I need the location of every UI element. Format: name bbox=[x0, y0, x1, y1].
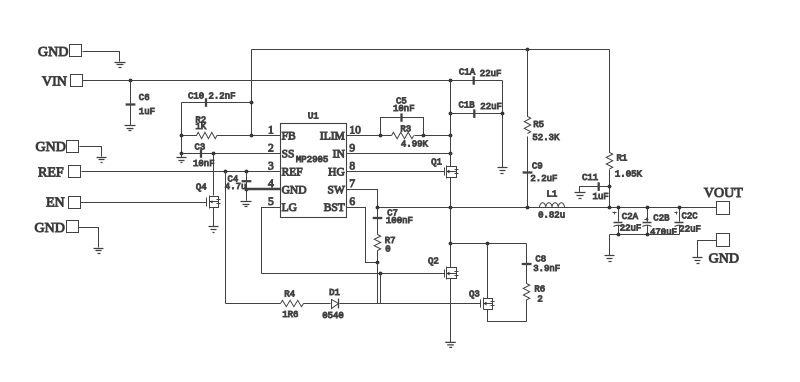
svg-text:100nF: 100nF bbox=[386, 216, 413, 226]
svg-text:R5: R5 bbox=[533, 120, 544, 130]
ground (Q4) bbox=[209, 227, 219, 233]
svg-text:VIN: VIN bbox=[42, 75, 67, 90]
svg-text:C11: C11 bbox=[582, 173, 598, 183]
node VOUT/C2C junction bbox=[678, 206, 682, 210]
node SW/C7 junction bbox=[376, 206, 380, 210]
transistor Q3 bbox=[469, 289, 495, 309]
capacitor C11 bbox=[580, 173, 610, 202]
resistor R5 bbox=[524, 50, 560, 171]
svg-text:REF: REF bbox=[38, 166, 64, 181]
svg-text:L1: L1 bbox=[547, 189, 558, 199]
svg-text:C2B: C2B bbox=[653, 214, 670, 224]
node SW row crossing handled above; node Q2 drain row junction bbox=[449, 242, 453, 246]
pin 4 GND bbox=[268, 178, 307, 196]
capacitor C4 bbox=[225, 172, 252, 201]
ground (SS node) bbox=[177, 154, 187, 163]
svg-text:1.05K: 1.05K bbox=[615, 169, 643, 179]
node VOUT/C2A junction bbox=[617, 206, 621, 210]
svg-text:9: 9 bbox=[349, 142, 355, 154]
node SW/R1-bottom junction bbox=[608, 206, 612, 210]
svg-text:SW: SW bbox=[328, 184, 345, 196]
svg-text:GND: GND bbox=[38, 45, 68, 60]
wire pin6 BST stub bbox=[347, 208, 378, 263]
wire LG row to Q2 gate bbox=[262, 273, 445, 275]
port GND1 bbox=[38, 45, 82, 61]
wire FB vertical bbox=[251, 50, 253, 136]
svg-text:2: 2 bbox=[537, 295, 542, 305]
svg-text:R3: R3 bbox=[400, 124, 411, 134]
node VOUT/C2B junction bbox=[646, 206, 650, 210]
ground (Q2) bbox=[445, 342, 456, 347]
svg-text:0: 0 bbox=[385, 245, 390, 255]
svg-text:GND: GND bbox=[282, 184, 307, 196]
svg-text:FB: FB bbox=[282, 131, 296, 143]
svg-text:C8: C8 bbox=[535, 254, 546, 264]
node SS/Q4 junction bbox=[212, 152, 216, 156]
wire C1A/C1B right vertical bbox=[502, 81, 504, 168]
svg-text:HG: HG bbox=[328, 167, 345, 179]
wire pin5 LG stub bbox=[262, 208, 281, 274]
wire Q3 drain up bbox=[487, 244, 489, 299]
svg-text:C1B: C1B bbox=[459, 101, 476, 111]
node ILIM/C5-right junction bbox=[422, 134, 426, 138]
svg-text:C2A: C2A bbox=[622, 212, 639, 222]
wire SS row / capacitor C3 bbox=[182, 142, 281, 169]
node R2-right/pin1 junction bbox=[250, 134, 254, 138]
capacitor C8 bbox=[522, 244, 561, 284]
pin 2 SS bbox=[268, 142, 294, 160]
node REF/bias junction bbox=[224, 170, 228, 174]
svg-text:3.9nF: 3.9nF bbox=[533, 264, 560, 274]
node SW/Q1-source junction bbox=[449, 206, 453, 210]
wire pin8 HG to Q1 gate bbox=[347, 171, 445, 173]
svg-text:C3: C3 bbox=[195, 142, 206, 152]
node VIN/C1A-left junction bbox=[449, 79, 453, 83]
wire GND2 to ground bbox=[80, 147, 102, 157]
svg-text:5: 5 bbox=[268, 196, 274, 208]
pin 9 IN bbox=[333, 142, 356, 160]
port EN bbox=[46, 196, 81, 211]
svg-text:Q4: Q4 bbox=[196, 183, 207, 193]
node Q3 drain junction bbox=[486, 242, 490, 246]
ground (C4) bbox=[241, 202, 252, 207]
capacitor C2A bbox=[613, 208, 642, 235]
svg-text:EN: EN bbox=[46, 196, 65, 211]
node ILIM/IN-vertical junction bbox=[449, 134, 453, 138]
svg-text:LG: LG bbox=[282, 202, 297, 214]
svg-text:4: 4 bbox=[268, 178, 274, 190]
node LG/bias junction bbox=[379, 272, 383, 276]
wire EN to Q4 gate bbox=[81, 202, 207, 204]
svg-text:R4: R4 bbox=[284, 289, 295, 299]
wire pin4 GND stub (thick) bbox=[246, 188, 280, 190]
ground (GND3) bbox=[94, 249, 104, 254]
wire pin1 FB stub bbox=[252, 135, 281, 137]
node C10-right junction bbox=[250, 101, 254, 105]
inductor L1 bbox=[538, 189, 565, 220]
svg-text:C1A: C1A bbox=[459, 68, 476, 78]
svg-text:GND: GND bbox=[36, 140, 66, 155]
ground (C1 caps) bbox=[498, 168, 508, 174]
svg-text:1uF: 1uF bbox=[139, 107, 155, 117]
wire pin9 IN row bbox=[347, 153, 451, 155]
port GND2 bbox=[36, 140, 79, 155]
wire SW net row bbox=[378, 207, 717, 209]
pin 5 LG bbox=[268, 196, 297, 214]
transistor Q2 bbox=[428, 256, 459, 279]
svg-text:8: 8 bbox=[349, 160, 355, 172]
svg-text:ILIM: ILIM bbox=[320, 131, 345, 143]
svg-text:22uF: 22uF bbox=[480, 102, 502, 112]
node IN/Q1-drain junction bbox=[449, 152, 453, 156]
wire REF to bias row vertical bbox=[225, 172, 227, 304]
svg-text:C2C: C2C bbox=[682, 212, 699, 222]
ground (C6) bbox=[125, 126, 136, 131]
wire FB/SS left vertical bbox=[181, 103, 183, 154]
svg-text:52.3K: 52.3K bbox=[532, 133, 560, 143]
capacitor C5 bbox=[381, 96, 424, 135]
wire GND4 to ground bbox=[698, 241, 717, 258]
wire VIN net bbox=[83, 80, 503, 82]
svg-text:BST: BST bbox=[324, 202, 345, 214]
transistor Q1 bbox=[431, 157, 458, 178]
capacitor C7 bbox=[373, 208, 413, 235]
node C1B-right junction bbox=[501, 112, 505, 116]
svg-text:6: 6 bbox=[349, 196, 355, 208]
ground (GND1) bbox=[115, 63, 126, 68]
resistor R2 bbox=[182, 116, 252, 139]
wire Q1 drain up to IN/VIN vertical bbox=[450, 81, 452, 167]
resistor R7 bbox=[374, 235, 395, 263]
svg-text:22uF: 22uF bbox=[480, 69, 502, 79]
node REF/C4 junction bbox=[245, 170, 249, 174]
wire GND1 to ground bbox=[83, 52, 120, 62]
wire pin7 SW jog bbox=[347, 190, 378, 208]
ground (C2 rail) bbox=[605, 256, 615, 262]
ground (GND2) bbox=[97, 158, 107, 163]
wire C2 bottom rail bbox=[610, 235, 680, 256]
capacitor C6 bbox=[126, 81, 155, 125]
wire SS to Q4 drain bbox=[213, 154, 215, 196]
pin 8 HG bbox=[328, 160, 355, 178]
svg-text:VOUT: VOUT bbox=[704, 186, 743, 201]
wire Q2 source to ground bbox=[450, 279, 452, 343]
svg-text:1R6: 1R6 bbox=[282, 310, 298, 320]
wire FB top rail bbox=[252, 49, 610, 51]
wire pin10 ILIM row bbox=[347, 135, 451, 137]
wire snubber row bbox=[451, 243, 527, 245]
pin 3 REF bbox=[268, 160, 303, 178]
wire REF net to pin 3 bbox=[82, 171, 281, 173]
wire R7 bottom to bias row bbox=[377, 263, 379, 304]
wire Q1 source down to Q2 drain bbox=[450, 178, 452, 268]
port VOUT bbox=[704, 186, 743, 215]
capacitor C2C bbox=[675, 208, 701, 235]
svg-text:3: 3 bbox=[268, 160, 274, 172]
bias row wire (R4/D1 row) bbox=[226, 303, 481, 305]
node C2A bottom junction bbox=[617, 233, 621, 237]
node C2B bottom junction bbox=[646, 233, 650, 237]
svg-text:C9: C9 bbox=[532, 161, 543, 171]
wire Q4 source to ground bbox=[213, 208, 215, 227]
svg-text:1: 1 bbox=[268, 124, 274, 136]
node R7/BST junction bbox=[376, 261, 380, 265]
capacitor C1A bbox=[459, 68, 502, 85]
svg-text:1uF: 1uF bbox=[593, 192, 609, 202]
port GND4 (bottom right) bbox=[709, 234, 739, 267]
wire LG junction down to bias row bbox=[380, 274, 382, 304]
svg-text:C6: C6 bbox=[139, 93, 150, 103]
svg-text:SS: SS bbox=[282, 149, 295, 161]
pin 1 FB bbox=[268, 124, 296, 142]
svg-text:MP2905: MP2905 bbox=[296, 155, 328, 165]
svg-text:U1: U1 bbox=[308, 112, 319, 122]
node ILIM/C5-left junction bbox=[379, 134, 383, 138]
capacitor C10 bbox=[182, 92, 252, 107]
svg-text:IN: IN bbox=[333, 149, 346, 161]
diode D1 bbox=[322, 288, 344, 321]
svg-text:0540: 0540 bbox=[322, 311, 344, 321]
capacitor C1B bbox=[451, 101, 503, 118]
svg-text:10nF: 10nF bbox=[393, 104, 415, 114]
IC U1 MP2905 box bbox=[281, 112, 347, 218]
svg-text:10nF: 10nF bbox=[193, 159, 215, 169]
wire Q3 source to bottom row bbox=[488, 310, 527, 322]
svg-text:R6: R6 bbox=[534, 284, 545, 294]
resistor R4 bbox=[281, 289, 304, 320]
ground (C11) bbox=[575, 193, 586, 199]
wire GND3 to ground bbox=[79, 228, 99, 248]
port GND3 bbox=[35, 221, 79, 236]
ground (GND4) bbox=[693, 258, 703, 264]
svg-text:Q3: Q3 bbox=[469, 289, 480, 299]
capacitor C9 bbox=[523, 138, 558, 208]
node VIN/C6 junction bbox=[129, 79, 133, 83]
node SW/C9 junction bbox=[526, 206, 530, 210]
svg-text:7: 7 bbox=[349, 178, 355, 190]
svg-text:0.82u: 0.82u bbox=[538, 210, 565, 220]
svg-text:4.7u: 4.7u bbox=[225, 182, 247, 192]
resistor R6 bbox=[523, 284, 545, 322]
resistor R3 bbox=[392, 124, 429, 149]
svg-text:2: 2 bbox=[268, 142, 274, 154]
svg-text:GND: GND bbox=[35, 221, 65, 236]
node SS-left junction bbox=[180, 152, 184, 156]
svg-text:2.2nF: 2.2nF bbox=[209, 92, 236, 102]
svg-text:C10: C10 bbox=[188, 92, 204, 102]
node FB-rail/R5 junction bbox=[526, 48, 530, 52]
port VIN bbox=[42, 75, 83, 90]
capacitor C2B bbox=[643, 208, 678, 238]
svg-text:470uF: 470uF bbox=[650, 227, 677, 237]
pin 6 BST bbox=[324, 196, 356, 214]
svg-text:22uF: 22uF bbox=[620, 224, 642, 234]
svg-text:10: 10 bbox=[349, 124, 361, 136]
node R2-left junction bbox=[180, 134, 184, 138]
svg-text:Q1: Q1 bbox=[431, 157, 442, 167]
svg-text:1K: 1K bbox=[195, 122, 206, 132]
svg-text:22uF: 22uF bbox=[679, 224, 701, 234]
port REF bbox=[38, 166, 81, 181]
pin 10 ILIM bbox=[320, 124, 361, 142]
svg-text:2.2uF: 2.2uF bbox=[530, 174, 557, 184]
node C4/pin4 junction bbox=[245, 188, 249, 192]
node R1/C11 junction bbox=[608, 185, 612, 189]
svg-text:D1: D1 bbox=[329, 288, 340, 298]
resistor R1 bbox=[606, 50, 642, 208]
svg-text:Q2: Q2 bbox=[428, 256, 439, 266]
svg-text:REF: REF bbox=[282, 167, 303, 179]
svg-text:4.99K: 4.99K bbox=[401, 140, 429, 150]
svg-text:R1: R1 bbox=[617, 153, 628, 163]
node VIN/C1B-left junction bbox=[449, 112, 453, 116]
pin 7 SW bbox=[328, 178, 356, 196]
transistor Q4 bbox=[196, 183, 221, 209]
svg-text:GND: GND bbox=[709, 251, 739, 266]
